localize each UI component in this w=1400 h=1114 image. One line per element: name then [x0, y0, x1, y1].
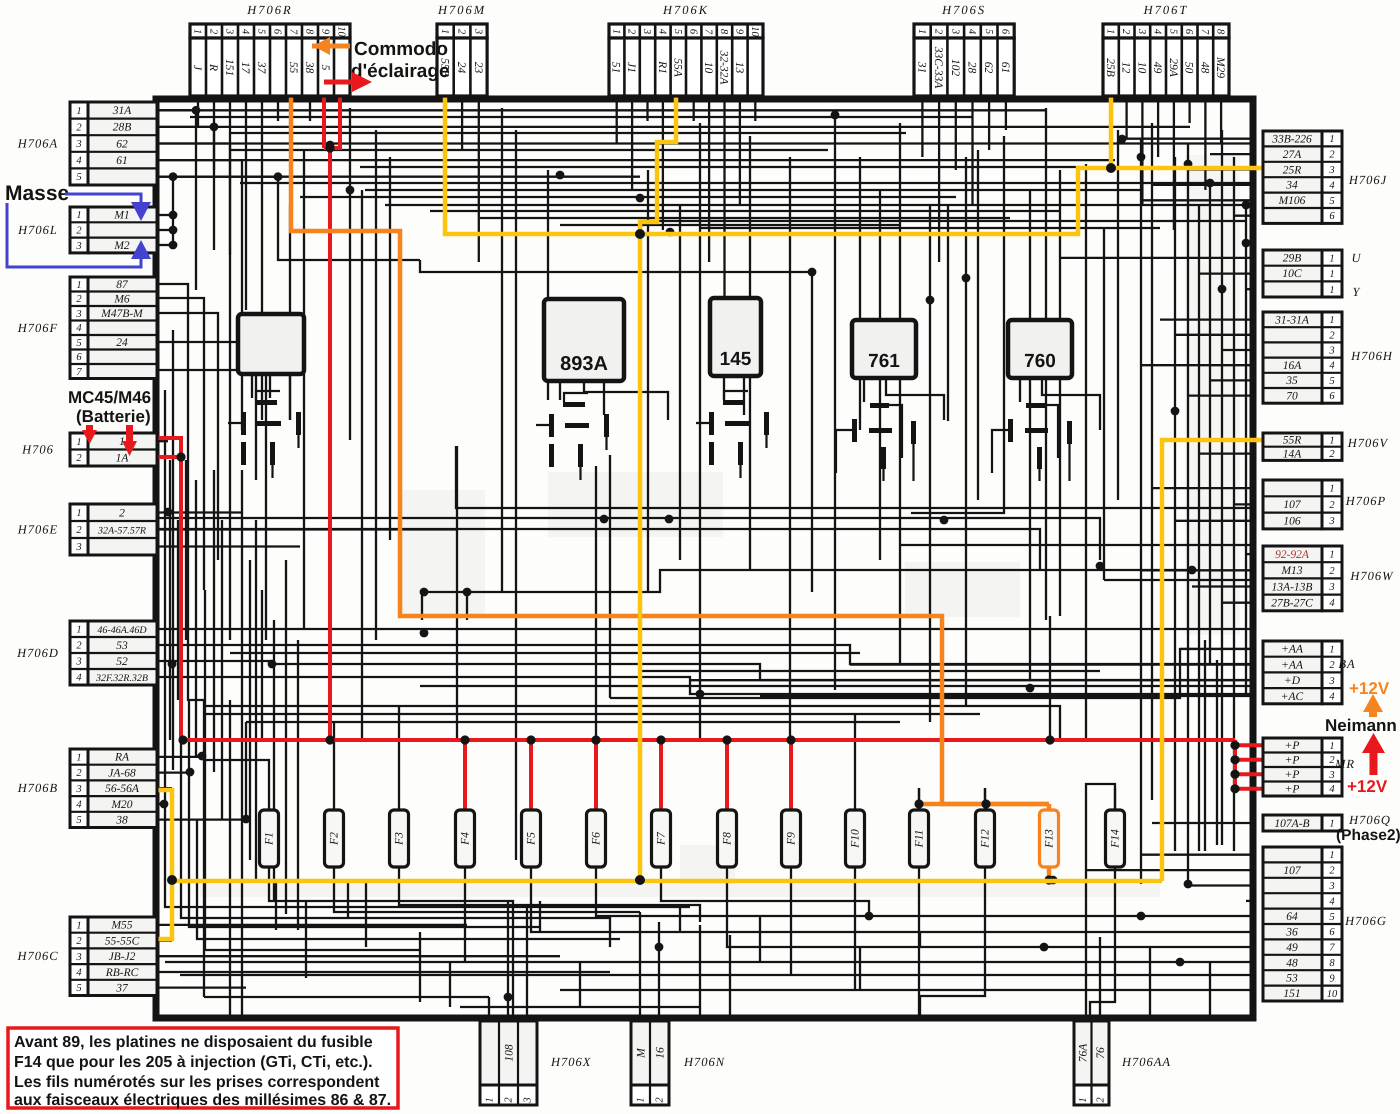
svg-text:10: 10 [336, 26, 347, 37]
wire [398, 706, 400, 788]
wire [1141, 199, 1256, 201]
svg-text:F3: F3 [394, 832, 406, 846]
wire fuse F10 top lead [854, 788, 856, 810]
wire [291, 95, 1049, 804]
wire [947, 205, 949, 421]
wire [361, 190, 363, 740]
wire [399, 877, 700, 922]
junction red [526, 735, 535, 744]
junction red [1230, 741, 1239, 750]
arrow red commodo [324, 72, 372, 92]
svg-text:H706W: H706W [1349, 569, 1394, 583]
wire [169, 460, 171, 740]
wire [157, 440, 168, 442]
junction [1176, 958, 1185, 967]
svg-text:10C: 10C [1282, 268, 1302, 280]
wire [300, 196, 956, 198]
svg-text:F1: F1 [264, 832, 276, 846]
svg-text:H706G: H706G [1344, 914, 1387, 928]
wire [723, 376, 725, 400]
wire orange F13 bottom [1047, 865, 1052, 880]
junction [268, 660, 277, 669]
wire [190, 116, 972, 118]
wire [679, 205, 681, 560]
svg-text:3: 3 [1328, 582, 1334, 593]
wire [609, 455, 611, 698]
svg-text:F5: F5 [526, 832, 538, 846]
svg-text:+P: +P [1285, 740, 1300, 752]
wire [157, 803, 164, 805]
wire [899, 123, 901, 664]
svg-text:+P: +P [1285, 784, 1300, 796]
svg-text:5: 5 [319, 65, 331, 71]
svg-text:2: 2 [76, 122, 82, 133]
wire [584, 381, 668, 420]
svg-text:33B-226: 33B-226 [1271, 134, 1312, 146]
svg-text:RA: RA [114, 752, 130, 764]
svg-text:1: 1 [76, 625, 81, 636]
wire pin stub [646, 96, 648, 121]
svg-text:1: 1 [1329, 484, 1334, 495]
svg-text:M20: M20 [110, 799, 132, 811]
wire [1204, 640, 1206, 851]
connector H706V [1263, 433, 1342, 460]
svg-text:4: 4 [1329, 361, 1335, 372]
wire [157, 644, 330, 646]
wire [965, 157, 967, 706]
wire [385, 204, 1246, 206]
wire [1045, 108, 1047, 620]
svg-text:+D: +D [1284, 675, 1301, 687]
wire [157, 110, 196, 290]
wire [230, 149, 828, 151]
wire [531, 877, 1256, 932]
connector H706S [914, 24, 1014, 96]
svg-text:31A: 31A [112, 105, 133, 117]
wire fuse F1 top lead [268, 788, 270, 810]
svg-text:31: 31 [915, 61, 927, 74]
wire [347, 881, 349, 918]
wire fuse F1 bottom lead [268, 867, 270, 877]
svg-text:29A: 29A [1167, 58, 1179, 78]
wire [1103, 228, 1105, 580]
wire [157, 370, 266, 640]
wire [1140, 139, 1142, 884]
svg-text:2: 2 [76, 294, 82, 305]
wire [157, 660, 272, 662]
svg-text:4: 4 [1152, 29, 1163, 35]
wire [1188, 95, 1190, 123]
fuse F3 [390, 810, 409, 867]
svg-text:J1: J1 [625, 62, 637, 73]
svg-text:8: 8 [304, 29, 315, 35]
wire [157, 126, 1190, 128]
wire [210, 677, 1256, 694]
wire [157, 924, 467, 926]
svg-text:893A: 893A [560, 353, 608, 375]
wire [289, 374, 291, 420]
svg-text:25R: 25R [1283, 164, 1302, 176]
svg-text:6: 6 [272, 29, 283, 35]
wire [1117, 130, 1119, 500]
connector BA [1263, 641, 1342, 704]
wire [157, 955, 560, 957]
wire [360, 166, 1080, 168]
wire [330, 645, 1256, 664]
svg-text:1: 1 [1329, 134, 1334, 145]
svg-text:33C-33A: 33C-33A [932, 46, 944, 90]
svg-text:9: 9 [734, 29, 745, 35]
svg-text:H706X: H706X [550, 1055, 592, 1069]
svg-text:3: 3 [1328, 676, 1334, 687]
wire red fuse feed [725, 740, 729, 810]
svg-text:1: 1 [1329, 269, 1334, 280]
junction red [656, 735, 665, 744]
svg-text:F13: F13 [1044, 829, 1056, 849]
svg-text:8: 8 [1329, 958, 1335, 969]
wire [157, 545, 300, 547]
wire [1160, 318, 1256, 320]
wire [478, 95, 480, 262]
svg-text:107: 107 [1283, 499, 1302, 511]
svg-text:107: 107 [1283, 865, 1302, 877]
wire [658, 922, 660, 1016]
junction [655, 943, 664, 952]
wire [449, 962, 451, 1007]
wire [1141, 569, 1256, 571]
svg-text:76A: 76A [1078, 1043, 1090, 1063]
wire red MR stub [1235, 743, 1262, 747]
wire [1175, 520, 1256, 522]
wire [275, 880, 277, 930]
relay 145 [710, 298, 761, 376]
svg-text:M1: M1 [113, 210, 129, 222]
wire [1220, 95, 1222, 143]
svg-text:4: 4 [657, 29, 668, 35]
connector H706Q [1263, 815, 1342, 831]
wire [1162, 440, 1262, 881]
wire [1192, 585, 1256, 587]
svg-text:JB-J2: JB-J2 [109, 951, 136, 963]
svg-text:3: 3 [1328, 881, 1334, 892]
svg-text:38: 38 [115, 814, 128, 826]
note box [8, 1028, 398, 1108]
svg-text:1: 1 [1329, 435, 1334, 446]
wire [1090, 877, 1115, 1016]
wire [165, 390, 690, 907]
svg-text:2: 2 [456, 29, 467, 35]
wire [456, 446, 458, 740]
wire [249, 560, 251, 860]
svg-text:RB-RC: RB-RC [105, 967, 139, 979]
svg-text:3: 3 [224, 28, 235, 34]
junction red [1230, 755, 1239, 764]
wire [197, 820, 620, 939]
svg-text:9: 9 [320, 29, 331, 35]
svg-text:151: 151 [223, 59, 235, 76]
svg-text:Avant 89, les platines ne disp: Avant 89, les platines ne disposaient du… [14, 1034, 373, 1051]
svg-text:F6: F6 [591, 832, 603, 846]
wire red fuse feed [789, 740, 793, 810]
svg-text:1: 1 [1329, 285, 1334, 296]
wire [1188, 394, 1256, 396]
wire [157, 144, 230, 641]
wire [1157, 95, 1159, 157]
wire [251, 374, 253, 398]
svg-text:107A-B: 107A-B [1274, 818, 1309, 830]
junction [420, 588, 429, 597]
wire [172, 879, 1162, 884]
junction [1137, 912, 1146, 921]
junction [1118, 135, 1127, 144]
wire [919, 802, 1049, 807]
svg-text:F2: F2 [329, 832, 341, 846]
wire fuse F12 top lead [984, 788, 986, 810]
svg-text:2: 2 [76, 525, 82, 536]
connector H706G [1263, 847, 1342, 1001]
svg-text:12: 12 [1120, 62, 1132, 74]
svg-text:F9: F9 [786, 832, 798, 846]
wire [157, 986, 246, 988]
wire [920, 877, 985, 1016]
svg-text:55R: 55R [1283, 435, 1302, 447]
wire [157, 298, 204, 590]
relay contact K4 [870, 403, 889, 408]
svg-text:10: 10 [1135, 62, 1147, 74]
svg-text:31-31A: 31-31A [1274, 314, 1310, 326]
svg-text:4: 4 [1329, 784, 1335, 795]
wire fuse F14 top lead [1114, 788, 1116, 810]
junction red [176, 452, 185, 461]
wire [749, 136, 751, 570]
junction red [178, 735, 187, 744]
wire [157, 160, 242, 430]
svg-text:H706H: H706H [1350, 349, 1393, 363]
svg-text:H706: H706 [21, 443, 54, 457]
wire [1233, 157, 1235, 851]
svg-text:1: 1 [1329, 644, 1334, 655]
junction red [1230, 784, 1239, 793]
svg-text:2: 2 [1329, 150, 1335, 161]
svg-text:46-46A.46D: 46-46A.46D [97, 625, 147, 636]
junction [1137, 153, 1146, 162]
connector H706AA [1074, 1021, 1109, 1105]
wire [921, 95, 923, 157]
svg-text:38: 38 [303, 61, 315, 74]
svg-text:53: 53 [1286, 973, 1298, 985]
arrow red +12V [1362, 733, 1385, 775]
fuse F4 [456, 810, 475, 867]
svg-text:1: 1 [1329, 550, 1334, 561]
svg-text:24: 24 [116, 337, 128, 349]
svg-text:d'éclairage: d'éclairage [351, 61, 450, 82]
wire [205, 590, 420, 950]
wire [988, 95, 990, 150]
wire [488, 997, 490, 1016]
wire [165, 961, 1256, 963]
svg-text:55-55C: 55-55C [105, 935, 140, 947]
connector H706K [609, 24, 763, 96]
wire [422, 570, 1192, 592]
junction [274, 172, 283, 181]
svg-text:64: 64 [1286, 911, 1298, 923]
wire fuse F10 bottom lead [854, 867, 856, 877]
wire [420, 685, 1256, 687]
svg-text:29B: 29B [1283, 253, 1302, 265]
svg-text:3: 3 [1328, 165, 1334, 176]
svg-text:2: 2 [1329, 330, 1335, 341]
svg-text:6: 6 [999, 29, 1010, 35]
wire [616, 95, 618, 143]
junction [1184, 880, 1193, 889]
svg-text:7: 7 [76, 367, 82, 378]
wire [1209, 962, 1211, 1016]
svg-text:2: 2 [76, 768, 82, 779]
wire [157, 518, 1100, 560]
wire fuse F7 bottom lead [660, 867, 662, 877]
svg-text:8: 8 [718, 29, 729, 35]
wire [241, 470, 243, 1016]
svg-text:(Batterie): (Batterie) [76, 407, 151, 426]
svg-text:1: 1 [1329, 315, 1334, 326]
svg-text:U: U [1351, 251, 1361, 265]
connector H706C [70, 917, 157, 996]
wire [639, 912, 641, 1016]
svg-text:2: 2 [1120, 29, 1131, 35]
connector MR [1263, 738, 1342, 796]
wire [185, 460, 187, 640]
wire [157, 176, 278, 178]
svg-text:17: 17 [239, 62, 251, 75]
junction [242, 815, 251, 824]
wire [172, 330, 174, 770]
svg-text:H706Q: H706Q [1348, 813, 1391, 827]
wire [204, 996, 489, 998]
wire fuse F3 top lead [398, 788, 400, 810]
junction red [591, 735, 600, 744]
arrow orange +12V [1363, 694, 1383, 717]
svg-text:H706F: H706F [17, 321, 58, 335]
wire [1173, 95, 1175, 230]
relay contact K3 [723, 400, 745, 405]
svg-text:49: 49 [1151, 62, 1163, 74]
wire [723, 95, 725, 330]
svg-text:+AC: +AC [1281, 691, 1304, 703]
wire [157, 939, 172, 941]
svg-text:M2: M2 [113, 240, 130, 252]
svg-text:53: 53 [116, 640, 128, 652]
svg-text:3: 3 [75, 139, 81, 150]
wire [1174, 157, 1176, 851]
fuse F5 [522, 810, 541, 867]
svg-text:7: 7 [1199, 29, 1210, 35]
wire [157, 971, 610, 973]
svg-text:1: 1 [192, 29, 203, 34]
svg-text:2: 2 [76, 226, 82, 237]
wire [158, 790, 172, 939]
wire [1187, 143, 1189, 884]
svg-text:1: 1 [76, 280, 81, 291]
wire [278, 177, 420, 260]
svg-text:BA: BA [1338, 657, 1355, 671]
wire [157, 787, 172, 789]
wire [579, 962, 581, 1007]
wire fuse F14 bottom lead [1114, 867, 1116, 877]
wire [1233, 740, 1237, 791]
wire [1199, 452, 1256, 454]
svg-text:MR: MR [1334, 757, 1355, 771]
wire [526, 905, 528, 1016]
wire [1152, 822, 1256, 824]
wire H706L3 [157, 244, 173, 246]
wire [759, 916, 761, 962]
svg-text:5: 5 [76, 338, 81, 349]
junction [556, 171, 565, 180]
svg-text:761: 761 [868, 351, 900, 372]
svg-text:2: 2 [1329, 449, 1335, 460]
junction [831, 111, 840, 120]
wire fuse F12 bottom lead [984, 867, 986, 877]
junction yellow [635, 229, 645, 239]
wire [1104, 579, 1256, 581]
svg-text:4: 4 [76, 968, 82, 979]
junction orange [914, 799, 923, 808]
wire [430, 210, 1060, 212]
svg-text:M13: M13 [1280, 565, 1302, 577]
svg-text:6: 6 [1329, 391, 1335, 402]
wire [661, 877, 1256, 916]
svg-text:6: 6 [1329, 927, 1335, 938]
fuse F10 [846, 810, 865, 867]
wire [420, 260, 812, 272]
wire [157, 159, 1115, 161]
svg-text:Les fils numérotés sur les pri: Les fils numérotés sur les prises corres… [14, 1074, 380, 1091]
wire [834, 115, 836, 690]
wire red MR stub [1235, 787, 1262, 791]
svg-text:4: 4 [76, 323, 82, 334]
relay 893A [544, 299, 624, 381]
junction [160, 800, 169, 809]
wire [1246, 900, 1256, 902]
wire [1085, 164, 1087, 740]
junction [164, 508, 173, 517]
svg-text:6: 6 [687, 29, 698, 35]
connector H706M [437, 24, 487, 96]
wire [157, 511, 242, 513]
svg-text:2: 2 [76, 936, 82, 947]
svg-text:5: 5 [983, 29, 994, 34]
wire [1141, 854, 1256, 856]
wire [305, 901, 307, 978]
svg-text:M: M [635, 1047, 647, 1059]
wire fuse F13 bottom lead [1048, 867, 1050, 877]
wire [790, 877, 792, 975]
wire fuse F11 bottom lead [918, 867, 920, 877]
wire [172, 175, 174, 247]
svg-text:8: 8 [1215, 29, 1226, 35]
wire [1199, 272, 1256, 274]
wire pin stub [277, 96, 279, 121]
wire [180, 974, 1256, 976]
wire [255, 520, 257, 880]
wire [1222, 602, 1256, 604]
svg-text:5: 5 [76, 983, 81, 994]
wire red fuse feed [594, 740, 598, 810]
connector H706D [70, 621, 157, 685]
svg-text:3: 3 [75, 784, 81, 795]
junction orange [1044, 875, 1053, 884]
wire [662, 95, 664, 230]
